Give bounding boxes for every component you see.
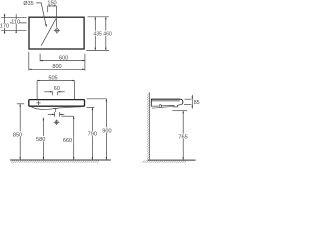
wall hatching xyxy=(147,93,150,159)
svg-text:170: 170 xyxy=(0,24,9,30)
basin outer bottom line xyxy=(152,106,174,108)
dim 600 line xyxy=(40,60,85,62)
dim 170 line xyxy=(4,14,6,34)
dim 900 text xyxy=(101,127,112,132)
bowl underside curve xyxy=(31,107,81,110)
svg-text:435 460: 435 460 xyxy=(93,31,112,37)
svg-text:60: 60 xyxy=(54,86,60,92)
dim 505 ext left xyxy=(36,81,38,100)
drain tee xyxy=(53,107,58,109)
svg-text:Ø35: Ø35 xyxy=(23,1,33,7)
svg-text:850: 850 xyxy=(13,132,22,138)
dim 660 text xyxy=(62,137,73,142)
dim 800 line xyxy=(29,68,85,70)
ext line 150 right to hole xyxy=(55,6,57,27)
ext line A (rear) xyxy=(1,16,26,18)
svg-text:900: 900 xyxy=(102,128,111,134)
svg-text:790: 790 xyxy=(88,132,97,138)
svg-text:600: 600 xyxy=(59,55,68,61)
dim 505 line xyxy=(37,80,74,82)
floor hatching (side view) xyxy=(142,160,186,163)
svg-text:85: 85 xyxy=(194,100,200,106)
floor line (front view) xyxy=(10,159,111,161)
ext line C (hole axis) xyxy=(1,29,26,31)
basin underside xyxy=(151,105,158,107)
dim 800 ext left xyxy=(28,52,30,70)
dim 850 tick xyxy=(17,103,24,105)
leader Ø35 xyxy=(36,3,46,25)
dim 85 ext bottom xyxy=(184,104,191,106)
dim 460 line xyxy=(105,17,107,51)
dim 85 line xyxy=(191,95,193,109)
dim 765 tick xyxy=(172,110,187,112)
ext 790 xyxy=(87,107,95,109)
dim 850 line xyxy=(19,104,21,160)
dim 580 line xyxy=(42,118,44,160)
dim 850 text xyxy=(12,131,23,136)
washbasin rim (front) xyxy=(29,100,85,107)
wall outlet centre mark xyxy=(54,120,59,125)
svg-text:800: 800 xyxy=(52,64,61,70)
floor hatching (front view) xyxy=(11,160,99,163)
drain width dim xyxy=(48,113,55,115)
dim 110 line xyxy=(15,14,17,33)
dim 435 460 text xyxy=(94,31,112,36)
overflow cross xyxy=(36,101,40,105)
dim 580 text xyxy=(35,136,46,141)
wall line xyxy=(149,92,151,160)
dim 765 line xyxy=(182,111,184,160)
dim 600 ext left xyxy=(39,54,41,62)
leader arrowhead xyxy=(45,24,47,27)
underside mid xyxy=(161,104,183,107)
svg-text:765: 765 xyxy=(178,135,187,141)
svg-text:110: 110 xyxy=(11,20,20,26)
ext line right bottom xyxy=(86,49,109,51)
dim 790 line xyxy=(91,108,93,160)
dim 765 text xyxy=(177,134,188,139)
dim 790 text xyxy=(87,131,98,136)
basin profile top edge xyxy=(151,98,180,100)
trap circle xyxy=(159,105,162,108)
faucet hole centre mark xyxy=(54,27,60,33)
ext line B xyxy=(10,22,27,24)
basin front edge xyxy=(180,99,183,104)
dim 60 ticks xyxy=(52,92,54,96)
dim 60 line and arrows xyxy=(44,91,53,93)
basin rim inner line xyxy=(152,100,180,102)
shared ext right xyxy=(84,54,86,71)
dim 85 ext top xyxy=(185,98,192,100)
diagonal tap-hole axis line xyxy=(41,19,56,46)
dim 170 text xyxy=(0,23,8,28)
basin outline (plan) xyxy=(29,17,84,49)
basin back edge xyxy=(150,99,152,106)
ext line right top xyxy=(88,16,109,18)
svg-text:580: 580 xyxy=(36,137,45,143)
dim 900 line xyxy=(105,99,107,160)
dim 150 line xyxy=(48,5,57,7)
dim 435 line xyxy=(94,17,96,51)
dim 110 text xyxy=(12,19,20,24)
ext 900 xyxy=(87,98,107,100)
floor line (side view) xyxy=(147,159,195,161)
svg-text:660: 660 xyxy=(63,138,72,144)
ext line 150 left xyxy=(47,6,49,12)
dim 505 ext right xyxy=(74,81,76,100)
dim 660 line xyxy=(73,116,75,160)
